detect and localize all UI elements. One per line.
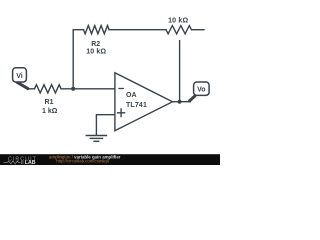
svg-text:http://circuitlab.com/csw9q6: http://circuitlab.com/csw9q6 (56, 159, 109, 164)
svg-text:TL741: TL741 (126, 102, 147, 109)
CircuitLab logo capacitor (20, 161, 22, 164)
wire op-amp output (173, 101, 191, 103)
wire feedback (inverting node up to R2) (73, 30, 83, 89)
node Vo flag (190, 82, 210, 101)
wire non-inverting input to ground (96, 115, 115, 136)
ground (86, 136, 108, 142)
op-amp inverting pin minus sign (118, 88, 124, 90)
svg-text:10 kΩ: 10 kΩ (168, 17, 188, 24)
svg-text:OA: OA (126, 92, 137, 99)
svg-text:Vo: Vo (197, 86, 205, 93)
op-amp U1 (OA TL741) (115, 73, 173, 131)
CircuitLab logo resistor zigzag (4, 161, 21, 164)
svg-text:LAB: LAB (25, 160, 36, 165)
potentiometer R3 (166, 26, 191, 34)
resistor R1 (35, 85, 62, 93)
wire potentiometer wiper down to output node (179, 41, 181, 102)
resistor R2 (84, 26, 110, 34)
wire Vi to R1 (27, 88, 35, 90)
svg-text:10 kΩ: 10 kΩ (86, 48, 106, 55)
node Vi flag (13, 68, 28, 89)
wire R1 to op-amp inverting input (61, 88, 115, 90)
svg-text:R1: R1 (45, 99, 54, 106)
svg-text:Vi: Vi (16, 73, 23, 80)
wire R2 to potentiometer (109, 29, 166, 31)
junction node inverting input (71, 87, 75, 91)
wire potentiometer right lead (open) (191, 29, 203, 31)
footer bar (0, 154, 220, 166)
junction node output (178, 100, 182, 104)
svg-text:1 kΩ: 1 kΩ (42, 108, 58, 115)
op-amp non-inverting pin plus sign (117, 112, 125, 114)
svg-text:R2: R2 (91, 41, 100, 48)
